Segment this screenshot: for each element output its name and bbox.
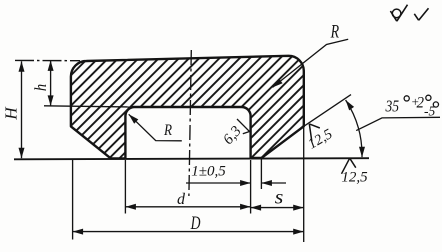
radius R leader (outer corner, top right) <box>273 39 349 87</box>
svg-text:h: h <box>32 84 50 91</box>
extension line inner-right (for d,s) <box>250 160 252 214</box>
svg-text:D: D <box>190 212 201 234</box>
surface symbol: plain check mark <box>414 8 428 20</box>
svg-text:12,5: 12,5 <box>341 170 368 186</box>
dimension d <box>125 206 250 208</box>
dimension h: extension line bottom <box>44 106 131 107</box>
baseline (shaft surface line) <box>14 158 369 159</box>
seal body cross-section (hatched profile) <box>71 56 304 159</box>
svg-text:35: 35 <box>385 97 400 116</box>
roughness 12,5 tick on baseline <box>342 158 356 174</box>
dimension 1 +/- 0,5 <box>186 182 251 184</box>
roughness 12,5 tick on chamfer extension <box>303 120 324 141</box>
svg-text:d: d <box>177 191 186 208</box>
extension line chamfer-foot (for 1+/-0,5) <box>260 159 262 189</box>
svg-text:1±0,5: 1±0,5 <box>191 164 226 180</box>
svg-text:R: R <box>330 20 339 42</box>
dimension s <box>251 207 304 209</box>
angle leader line <box>356 117 440 130</box>
dimension H: vertical dimension line <box>21 61 23 158</box>
dimension h: vertical dimension line <box>50 60 52 106</box>
svg-text:6,3: 6,3 <box>220 123 244 148</box>
dimension H: extension line top <box>15 59 80 61</box>
angle dimension arc <box>346 100 362 157</box>
roughness 6,3 tick on inner wall <box>237 119 250 134</box>
surface symbol: check with circle (no material removal) <box>390 5 407 22</box>
chamfer extension line (for 35 deg angle) <box>304 95 351 127</box>
extension line outer-left (for D) <box>72 160 74 240</box>
extension line outer-right (for s,D) <box>303 119 305 242</box>
svg-text:H: H <box>2 106 21 121</box>
radius R leader (inner corner) <box>129 114 182 141</box>
centerline (vertical dash-dot axis) <box>189 50 191 196</box>
svg-text:s: s <box>275 185 284 208</box>
dimension D <box>73 231 304 233</box>
svg-text:R: R <box>163 122 172 139</box>
extension line inner-left (for d) <box>124 160 126 214</box>
